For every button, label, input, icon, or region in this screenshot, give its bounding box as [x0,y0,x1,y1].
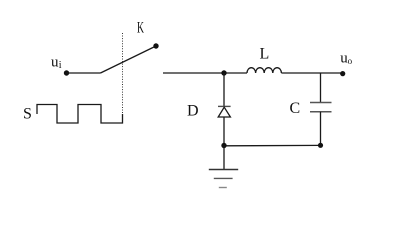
svg-text:u: u [51,55,59,71]
diode D triangle [218,107,230,117]
diode D cathode bar [218,105,231,107]
source S square wave [37,105,123,124]
node junction diode/ground [221,143,226,148]
ground [209,170,238,188]
node input terminal [64,70,69,75]
wire bottom rail [224,144,321,146]
svg-text:L: L [260,46,270,63]
wire top rail right of inductor [281,72,342,74]
svg-text:C: C [290,100,301,117]
wire input horizontal [67,72,101,74]
svg-text:D: D [187,103,199,120]
node junction switch/diode [221,70,226,75]
wire diode bottom lead [223,117,225,146]
svg-text:S: S [23,106,32,123]
wire ground lead [223,145,225,169]
label ui (input voltage) [51,55,62,72]
label uo (output voltage) [340,51,352,67]
switch K arm [101,46,157,73]
node junction capacitor/bottom rail [318,143,323,148]
wire top rail left of inductor [163,72,247,74]
wire capacitor bottom lead [320,112,322,146]
capacitor C bottom plate [310,111,332,113]
dashed control line from K to S [122,33,124,117]
node output terminal [340,71,345,76]
wire diode top lead [223,73,225,107]
svg-text:o: o [348,56,353,66]
inductor L [247,68,281,73]
switch K contact node [153,43,158,48]
wire capacitor top lead [320,73,322,103]
svg-text:K: K [137,20,144,37]
svg-text:i: i [59,60,62,71]
capacitor C top plate [310,102,332,104]
